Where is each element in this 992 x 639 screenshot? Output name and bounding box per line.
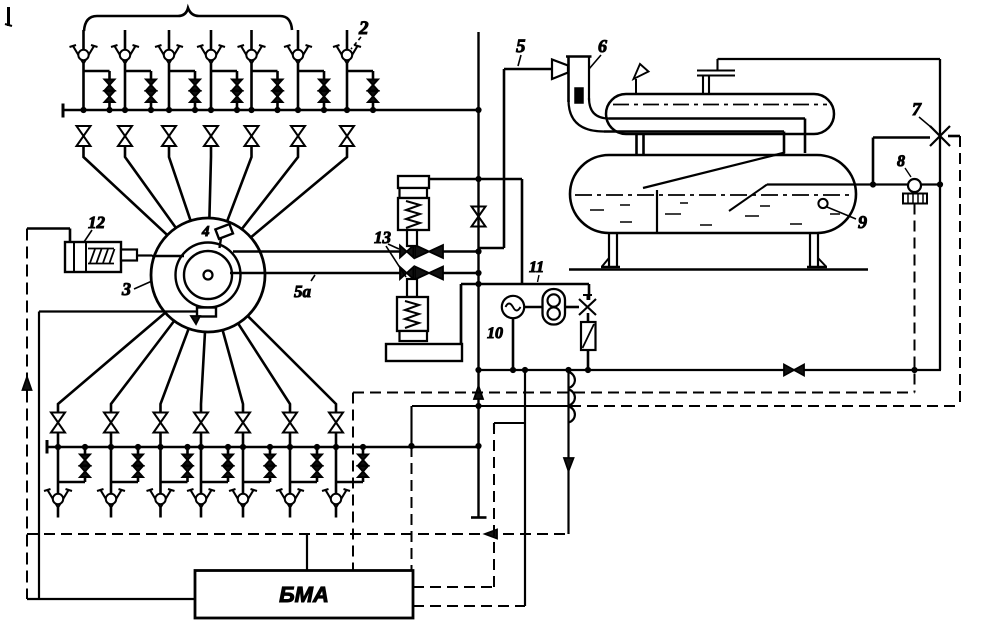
wire radial bottom 1	[58, 313, 165, 412]
gauge 8	[908, 179, 921, 192]
wire meter-valve	[565, 306, 579, 309]
valve pair 13 at y273	[400, 267, 443, 280]
riser flow arrow	[474, 386, 483, 399]
valve pair 13 at y251	[400, 245, 443, 258]
wire radial top 7	[251, 146, 347, 237]
impulse bottom y534	[27, 533, 569, 535]
label 5	[516, 36, 526, 66]
wire radial bottom 5	[223, 330, 243, 412]
svg-text:4: 4	[201, 224, 210, 240]
wire actuator supply	[27, 229, 70, 243]
pipe 5a lower	[230, 272, 400, 275]
orifice fitting	[581, 322, 596, 350]
purge column 2 valves	[97, 413, 143, 518]
upper vessel centerline	[613, 104, 827, 106]
pipe 5a lower right	[443, 272, 479, 275]
control unit BMA	[195, 571, 413, 619]
meter box top 11	[461, 284, 589, 344]
burner column 1 valves	[70, 30, 115, 146]
outlet pipe	[767, 183, 940, 185]
impulse from 8	[914, 204, 916, 393]
distributor ring inner	[184, 251, 232, 299]
riser pipe	[471, 32, 487, 518]
purge column 5 valves	[229, 413, 275, 518]
riser valve	[472, 207, 486, 227]
vessel leg right	[807, 233, 827, 267]
liquid shading	[590, 203, 840, 225]
downcomer left	[637, 134, 644, 154]
wire orifice down	[587, 350, 590, 370]
svg-text:БМА: БМА	[279, 582, 329, 607]
vent header	[718, 59, 941, 370]
liquid level line	[575, 194, 850, 196]
impulse long y392	[353, 392, 915, 394]
wire radial bottom 2	[111, 321, 174, 412]
downcomer right	[784, 119, 805, 154]
bottom arrow	[485, 530, 497, 539]
riser junctions	[409, 107, 917, 448]
top header pipe	[63, 104, 479, 118]
svg-text:2: 2	[358, 18, 369, 39]
wire radial top 1	[84, 146, 168, 235]
purge column 3 valves	[147, 413, 193, 518]
bma link a	[306, 534, 308, 571]
actuator 12 cylinder	[65, 242, 137, 272]
label 9	[827, 207, 867, 232]
sensor 10	[502, 296, 524, 318]
wire rod chord	[152, 255, 184, 258]
bma link e	[413, 370, 525, 606]
bma link c	[410, 406, 412, 571]
gas meter	[543, 289, 566, 325]
valve 7	[930, 126, 950, 146]
purge column 4 valves	[187, 413, 233, 518]
label 11	[529, 259, 544, 282]
purge column 7 valves	[322, 413, 368, 518]
distributor ring	[176, 243, 241, 308]
vessel leg left	[601, 233, 620, 267]
wire radial bottom 7	[248, 316, 336, 412]
drain line	[567, 370, 569, 534]
wire bottom port line	[39, 310, 197, 312]
label 4	[201, 224, 210, 240]
hop loops	[569, 372, 575, 423]
regulator lower bracket	[386, 284, 462, 361]
wire radial top 6	[242, 146, 298, 229]
pipe 5	[479, 69, 553, 248]
ejector 6 pipe	[566, 57, 609, 132]
impulse long y406	[412, 405, 960, 407]
upper vessel	[606, 94, 834, 134]
svg-text:7: 7	[912, 99, 922, 119]
label 5a	[294, 275, 315, 301]
burner column 3 valves	[155, 30, 200, 146]
regulator upper	[398, 176, 429, 246]
wire radial bottom 4	[201, 332, 205, 412]
label 6	[589, 36, 607, 69]
three-way valve	[579, 295, 596, 315]
distributor center	[204, 271, 213, 280]
left border arrow	[23, 377, 32, 390]
brace over manifold	[84, 8, 292, 31]
frame tick mark	[5, 7, 12, 26]
burner column 6 valves	[284, 30, 329, 146]
lower vessel	[570, 155, 856, 233]
distributor bottom port	[191, 308, 216, 325]
impulse right far	[959, 136, 961, 406]
wire radial top 4	[209, 146, 211, 218]
wire radial bottom 6	[238, 323, 290, 412]
distributor top port 4	[215, 224, 233, 248]
purge column 1 valves	[44, 413, 90, 518]
wire sensor down	[512, 318, 515, 370]
pipe 5a upper	[233, 250, 400, 253]
inner pipe lines	[604, 119, 805, 132]
label 8	[897, 153, 911, 177]
ejector horn	[552, 60, 568, 80]
distributor outer circle 3	[151, 218, 265, 332]
svg-text:8: 8	[897, 153, 905, 170]
ground line	[569, 268, 868, 271]
pipe outlet line	[479, 369, 942, 371]
burner column 7 valves	[333, 30, 378, 146]
wire radial top 5	[227, 146, 251, 221]
weir	[656, 190, 658, 233]
gauge 8 seat	[903, 194, 927, 204]
bottom header pipe	[47, 440, 479, 454]
svg-text:5а: 5а	[294, 282, 312, 301]
frame bottom solid	[27, 598, 195, 600]
cross link	[429, 179, 522, 284]
label 10	[487, 325, 503, 342]
svg-text:10: 10	[487, 325, 503, 342]
outlet dip	[729, 185, 767, 212]
svg-text:6: 6	[598, 36, 607, 56]
burner column 2 valves	[111, 30, 156, 146]
separator plate	[643, 153, 785, 189]
label 7	[912, 99, 932, 128]
wire 7 branch	[870, 138, 942, 188]
vessel tee fitting	[697, 59, 735, 94]
svg-text:3: 3	[121, 279, 131, 299]
regulator lower	[397, 279, 428, 341]
svg-text:12: 12	[88, 213, 106, 232]
svg-text:9: 9	[858, 212, 867, 232]
bma link b	[352, 393, 354, 571]
svg-text:11: 11	[529, 259, 544, 276]
vent flag	[634, 64, 649, 94]
pipe 5a upper right	[443, 250, 479, 253]
burner column 5 valves	[238, 30, 283, 146]
label 2	[351, 18, 369, 49]
valve on outlet	[784, 365, 804, 376]
level gauge 9	[818, 199, 827, 208]
label 13	[374, 228, 406, 277]
wire radial bottom 3	[161, 329, 189, 412]
bma link d	[413, 423, 525, 587]
wire radial top 2	[125, 146, 176, 228]
impulse left border	[26, 229, 28, 600]
drain arrow	[564, 458, 574, 471]
frame left solid	[38, 312, 40, 600]
burner column 4 valves	[197, 30, 242, 146]
actuator rod	[137, 254, 152, 256]
wire to valve7 right	[948, 135, 960, 138]
svg-text:5: 5	[516, 36, 526, 57]
outlet junction dots	[510, 367, 590, 372]
wire 10-meter	[524, 306, 542, 309]
label 3	[121, 279, 152, 299]
wire radial top 3	[169, 146, 191, 221]
wire valve down	[587, 313, 590, 322]
purge column 6 valves	[276, 413, 322, 518]
label 12	[84, 213, 106, 242]
